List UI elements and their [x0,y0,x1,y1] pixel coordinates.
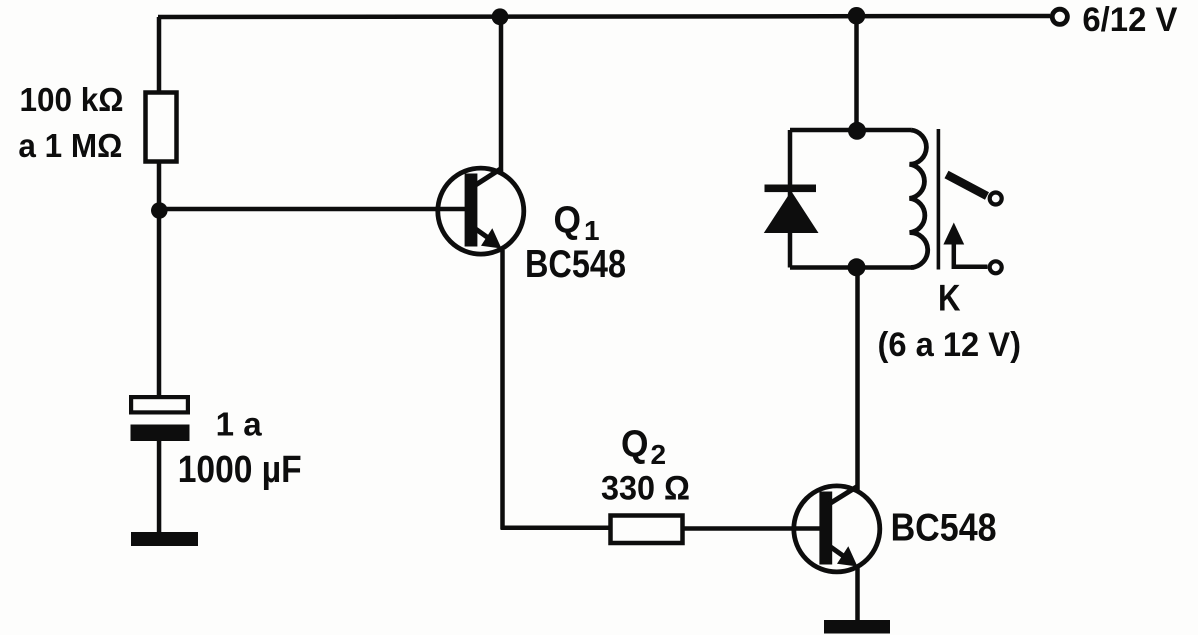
capacitor C1 bottom plate [131,425,190,442]
node junction top rail / relay [848,7,866,25]
svg-text:330 Ω: 330 Ω [601,470,690,508]
svg-text:BC548: BC548 [525,243,626,286]
wire relay left vertical [788,130,793,268]
wire Q1 collector vertical [499,17,504,172]
relay switch bottom contact [990,261,1002,273]
wire Q2 emitter vertical [855,567,860,622]
wire switch lead L [954,240,988,267]
svg-text:Q: Q [554,200,582,242]
resistor R1 [146,93,177,162]
terminal 6/12 V [1052,9,1067,24]
svg-text:Q: Q [621,424,649,466]
wire Q2 collector vertical [855,267,860,490]
wire top rail [158,16,1050,17]
transistor Q2 [794,486,880,572]
wire base Q1 [159,207,466,212]
node junction top rail / Q1 collector [492,8,509,25]
node junction R1 bottom / Q1 base [151,202,168,219]
ground G2 [824,620,890,634]
node junction relay bottom / Q2 collector [848,258,866,276]
svg-text:a 1 MΩ: a 1 MΩ [18,127,122,164]
relay coil K [910,130,928,268]
diode D1 cathode bar [765,185,817,193]
wire Q1 emitter vertical [500,250,505,529]
node junction relay top [848,122,866,140]
diode D1 anode triangle [764,191,819,233]
wire relay top [790,128,911,133]
svg-text:(6 a 12 V): (6 a 12 V) [878,326,1022,364]
svg-text:6/12 V: 6/12 V [1082,1,1177,39]
svg-text:1000 µF: 1000 µF [178,449,302,491]
svg-text:100 kΩ: 100 kΩ [20,81,124,118]
relay core bar [937,129,941,270]
capacitor C1 top plate [131,397,188,412]
svg-text:BC548: BC548 [891,507,997,550]
relay switch top contact [990,193,1002,205]
svg-text:2: 2 [651,439,667,470]
wire left vertical middle [157,161,162,397]
wire to resistor R2 [501,526,613,531]
wire R2 to Q2 base [683,526,822,531]
relay switch arm [947,175,988,197]
ground G1 [131,532,198,546]
svg-text:1: 1 [584,215,600,246]
resistor R2 330 ohm [611,516,683,544]
transistor Q1 [438,168,524,254]
wire left vertical upper [157,17,162,92]
relay switch armature arrow [943,223,964,245]
wire capacitor to ground [157,441,162,534]
wire supply to relay [854,16,859,131]
svg-text:K: K [938,278,961,319]
svg-text:1 a: 1 a [216,406,263,443]
wire relay bottom [790,265,914,270]
